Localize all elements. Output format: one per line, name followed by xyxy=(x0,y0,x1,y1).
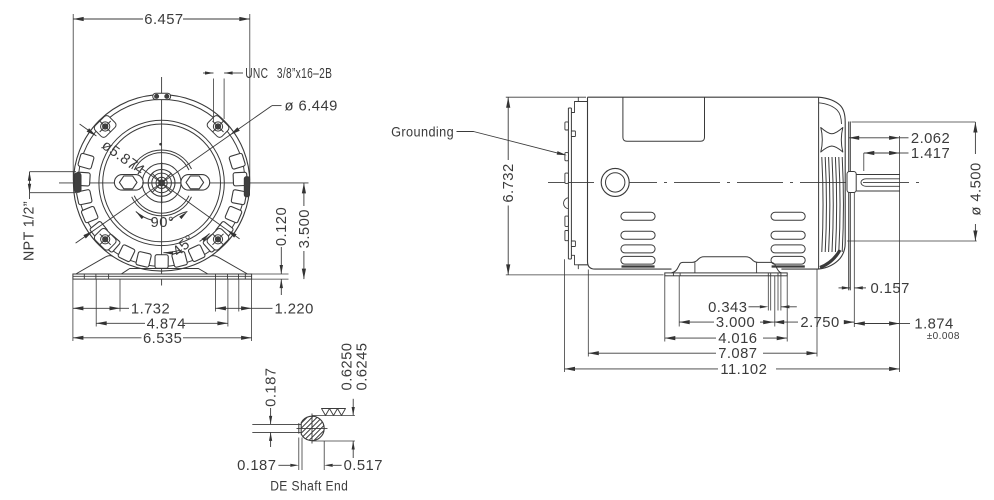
bolt hole boss lower-left xyxy=(93,227,118,252)
small center dot mark xyxy=(159,143,161,145)
dim 1.732 xyxy=(73,307,120,309)
side view body outline xyxy=(588,97,819,269)
dim dia 6.449 leader line through center xyxy=(76,106,272,244)
keyseat flat second line xyxy=(298,423,300,433)
right mounting slot (obround) xyxy=(181,175,210,191)
dim 0.120 / 3.500 extension lines xyxy=(252,273,289,275)
fan cover ribs xyxy=(822,157,823,252)
dim UNC 3/8x16-2B extension lines xyxy=(213,79,215,123)
svg-text:11.102: 11.102 xyxy=(720,362,767,378)
dim 45 deg arc xyxy=(163,250,179,252)
dim 1.417 xyxy=(864,152,900,154)
svg-text:0.157: 0.157 xyxy=(871,281,910,297)
front base plate xyxy=(73,274,252,279)
dim 6.457 xyxy=(73,18,143,20)
vent slots right group xyxy=(771,212,805,220)
side view centerline (dash-dot) xyxy=(548,181,926,183)
dark tab at left (NPT conduit boss) xyxy=(74,173,81,192)
dim 0.157 xyxy=(839,287,851,289)
shaft circles at center xyxy=(148,170,175,197)
svg-text:DE Shaft End: DE Shaft End xyxy=(270,478,348,493)
bearing boss xyxy=(847,172,856,193)
shaft end detail circle xyxy=(301,416,324,440)
terminal end plate xyxy=(567,108,569,259)
left mounting slot (obround) xyxy=(114,175,143,191)
tapped bolt hole lower-right xyxy=(213,235,222,244)
svg-text:6.732: 6.732 xyxy=(501,163,517,202)
svg-text:1.732: 1.732 xyxy=(131,301,170,317)
svg-text:0.120: 0.120 xyxy=(274,207,290,246)
svg-text:2.062: 2.062 xyxy=(911,131,950,147)
dim 1.220 xyxy=(215,307,251,309)
dim dia 4.500 extension lines xyxy=(852,121,976,123)
dim 11.102 xyxy=(565,368,719,370)
dim 6.457 extension lines xyxy=(72,14,74,181)
slinger disc xyxy=(848,122,850,172)
front view outer circle (frame OD) xyxy=(73,95,249,271)
side foot hump xyxy=(672,257,782,273)
front face ring outer xyxy=(99,120,224,245)
body left end step blocks bottom xyxy=(571,255,587,264)
hex nut in left slot xyxy=(119,176,137,189)
center bottom boss between feet xyxy=(121,269,208,275)
dim 0.6250/0.6245 extension lines xyxy=(312,415,355,417)
dim 0.120 xyxy=(280,247,282,274)
dim 1.874 xyxy=(854,323,899,325)
dim dia 5.874 line through center xyxy=(80,124,97,136)
svg-text:7.087: 7.087 xyxy=(718,346,757,362)
side bottom extension lines xyxy=(564,259,566,372)
grease boss circle xyxy=(601,168,629,196)
svg-text:1.417: 1.417 xyxy=(911,146,950,162)
svg-text:0.6245: 0.6245 xyxy=(354,343,370,391)
cooling fins around lower arc xyxy=(76,153,247,268)
dark tab at right xyxy=(244,177,249,197)
front face ring inner xyxy=(103,124,221,242)
front view second outer circle xyxy=(78,99,245,266)
tapped bolt hole upper-right xyxy=(213,122,222,131)
center cross marks xyxy=(161,162,163,203)
svg-text:±0.008: ±0.008 xyxy=(927,331,960,342)
svg-text:0.187: 0.187 xyxy=(264,368,280,407)
boss face extension line xyxy=(853,193,855,328)
svg-text:3.500: 3.500 xyxy=(297,209,313,248)
dim 4.874 xyxy=(96,322,145,324)
grounding leader xyxy=(457,132,563,155)
plug bump on plate xyxy=(564,198,569,209)
dia 6.449 arrowheads xyxy=(230,127,240,135)
svg-text:4.016: 4.016 xyxy=(718,331,757,347)
fan cover bowtie vent xyxy=(821,128,843,153)
shaft xyxy=(856,175,899,192)
svg-text:3.000: 3.000 xyxy=(716,315,755,331)
dim 4.016 xyxy=(665,337,716,339)
dim 0.517 bottom xyxy=(324,464,333,467)
tab at 12 o'clock (slot with dark ends) xyxy=(153,93,171,99)
svg-text:Grounding: Grounding xyxy=(391,123,454,139)
svg-text:1.220: 1.220 xyxy=(275,301,314,317)
inner bearing circle xyxy=(142,164,181,203)
dim 3.500 xyxy=(303,183,305,206)
svg-text:UNC 3/8”x16–2B: UNC 3/8”x16–2B xyxy=(245,66,332,82)
side foot plate ticks xyxy=(672,273,674,276)
dim 0.187 vertical (key) xyxy=(270,408,272,424)
fan cover joint line xyxy=(818,97,820,269)
boss circle broken by slots xyxy=(132,150,192,169)
svg-text:NPT 1/2”: NPT 1/2” xyxy=(22,201,38,261)
svg-text:6.457: 6.457 xyxy=(144,12,183,28)
bolt hole boss upper-left xyxy=(93,114,118,139)
nameplate rectangle xyxy=(623,97,705,141)
bolt hole boss lower-right xyxy=(206,227,231,252)
shaft detail centerlines xyxy=(311,414,313,444)
dim 6.732 extension lines xyxy=(506,96,586,98)
body left end step blocks top xyxy=(571,102,587,113)
dim NPT 1/2 extension lines xyxy=(30,171,77,173)
svg-text:6.535: 6.535 xyxy=(143,331,182,347)
dim 90 deg arc xyxy=(170,212,187,221)
hex nut in right slot xyxy=(186,176,204,189)
shaft keyway xyxy=(866,178,900,180)
dim NPT 1/2 arrows xyxy=(29,172,31,193)
wire: front view horizontal centerline xyxy=(59,182,309,184)
dim 6.732 xyxy=(507,97,509,160)
tapped bolt hole upper-left xyxy=(101,122,110,131)
svg-text:90°: 90° xyxy=(151,215,175,231)
fan cover outline xyxy=(819,97,846,269)
bolt hole boss upper-right xyxy=(206,114,231,139)
svg-text:2.750: 2.750 xyxy=(800,315,839,331)
side foot plate xyxy=(665,273,787,276)
dim 3.000 xyxy=(679,321,714,323)
dim UNC leader xyxy=(203,72,214,74)
dim 2.062 xyxy=(849,137,900,139)
terminal plate tabs xyxy=(565,122,569,130)
svg-text:0.343: 0.343 xyxy=(708,300,747,316)
fan cover bottom dark band xyxy=(820,250,840,268)
front base extension lines xyxy=(72,279,74,341)
base plate slot ticks xyxy=(83,274,85,279)
svg-text:0.6250: 0.6250 xyxy=(339,343,355,391)
svg-text:ø 4.500: ø 4.500 xyxy=(968,162,984,215)
keyseat horizontal lines xyxy=(252,423,301,425)
dim 6.535 xyxy=(73,337,142,339)
shaft detail lower extension lines xyxy=(298,438,300,471)
dim 2.750 xyxy=(774,321,798,323)
dim 0.6250/0.6245 xyxy=(352,399,354,416)
left foot gusset slope xyxy=(76,256,113,274)
svg-text:ø 6.449: ø 6.449 xyxy=(285,99,338,115)
vent slots left group xyxy=(621,212,655,220)
wire: front view vertical centerline xyxy=(161,77,163,286)
tapped bolt hole lower-left xyxy=(101,235,110,244)
dim dia 4.500 xyxy=(974,122,976,154)
svg-text:0.517: 0.517 xyxy=(344,458,383,474)
small blocks on plate xyxy=(571,131,575,137)
dim 7.087 xyxy=(588,352,716,354)
surface finish marks xyxy=(322,409,330,416)
right foot gusset slope xyxy=(210,256,247,274)
svg-text:0.187: 0.187 xyxy=(237,458,276,474)
